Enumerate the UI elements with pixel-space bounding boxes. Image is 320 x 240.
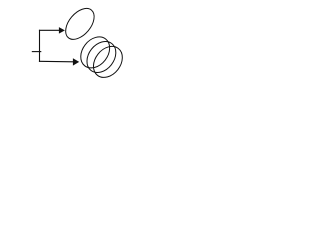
ellipse stack back E1: [75, 31, 116, 73]
ellipse upper state: [60, 3, 100, 44]
wire input stub: [32, 51, 42, 53]
arrowhead bottom: [73, 58, 79, 65]
ellipse stack front E3: [88, 41, 129, 83]
wire fork trunk: [39, 30, 41, 62]
ellipse stack middle E2: [81, 36, 122, 78]
wire top arm: [39, 29, 59, 31]
wire bottom arm: [39, 60, 73, 63]
arrowhead top: [59, 27, 65, 33]
